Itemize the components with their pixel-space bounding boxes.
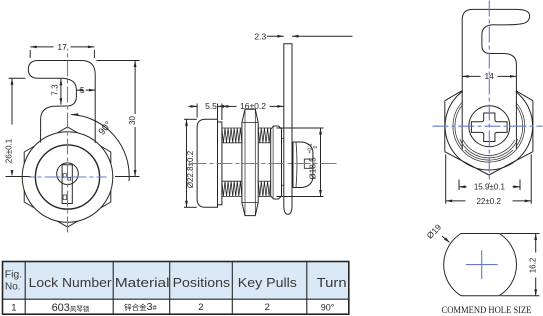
dim 5 text [80,85,85,95]
dim 2.3 line [267,35,353,38]
dim 30 extension lines [97,61,140,177]
table data Fig 1 [11,303,16,314]
table data turn 90 [321,303,335,313]
dim 5.5 text [205,101,217,111]
left view: keyway slot [62,165,72,204]
hole diagram caption [442,306,532,316]
svg-text:Positions: Positions [173,276,231,290]
side view horizontal centerline [191,163,338,165]
table data material [124,301,157,313]
dim 26 line [11,78,14,176]
side view: thread segment right [258,128,271,196]
dim 26 extension lines [6,78,31,176]
dim 5.5 line [189,105,226,108]
dim dia 19 leader [442,236,450,243]
dim 16 extension line [221,104,223,121]
svg-text:5: 5 [80,85,85,95]
angle 90 text [97,119,115,137]
dim 5.5 extension lines [197,104,217,121]
side view: thread segment left [222,128,242,196]
rear view horizontal centerline [433,125,543,127]
dim 30 text [128,116,137,125]
dim 2.3 text [254,31,266,41]
dim 5 line [76,89,95,92]
dim 22 text [476,197,501,206]
dim 16.2 extension lines [501,234,540,296]
side view: lock head dome [197,119,217,207]
dim 18.5 line [319,128,322,197]
left view horizontal centerline [29,176,107,178]
angle 90 arc [71,113,129,181]
left view: key plug circle [57,163,79,185]
svg-text:5.5: 5.5 [205,101,217,111]
svg-text:2.3: 2.3 [254,31,266,41]
dim 17 line [30,46,94,49]
svg-text:30: 30 [128,116,137,125]
dim 30 line [134,61,137,177]
dim 16 line [222,105,284,108]
svg-text:COMMEND HOLE SIZE: COMMEND HOLE SIZE [442,306,532,316]
svg-text:锌合金3#: 锌合金3# [124,301,157,313]
hole diagram: center cross [466,250,498,279]
dim 16 text [240,101,266,111]
hole diagram: double-D hole outline [444,234,517,296]
rear view: mask over circles top [463,79,516,151]
rear view: hook cam outline [462,9,529,98]
dim 22 extension lines [446,155,532,204]
left view: lock face circle [35,145,99,209]
svg-text:16±0.2: 16±0.2 [240,101,266,111]
dim 22 line [446,200,532,203]
svg-text:22±0.2: 22±0.2 [476,197,501,206]
rear view: screw head circle [469,106,510,147]
rear view: phillips cross recess [471,113,507,142]
dim 17 text [57,42,67,52]
rear view: hex nut upper chamfer edges [445,91,533,101]
side view: screw slot [304,159,312,168]
dim 15.9 extension lines [459,180,520,191]
svg-text:Ø18.5: Ø18.5 [309,157,318,180]
svg-text:0: 0 [313,145,319,148]
dim 7.3 text [50,84,59,96]
table header Positions [173,276,231,290]
svg-text:16.2: 16.2 [529,257,538,273]
dim 16.2 line [534,234,537,296]
left view: hex nut outline [24,127,111,227]
dim 18.5 extension lines [277,128,324,197]
table header Turn [317,276,347,290]
left view: face flange circle [22,132,113,223]
dim 26 text [5,138,14,163]
rear view: flange circle [445,82,533,170]
dim 15.9 line [459,185,520,188]
table data key pulls 2 [265,302,270,313]
dim 7.3 line [60,79,63,105]
svg-text:2: 2 [198,302,203,313]
dim 22.8 extension lines [184,119,197,207]
dim 22.8 text [186,150,195,188]
dim 17 extension lines [30,50,94,58]
svg-text:90°: 90° [321,303,335,313]
table header Material [115,276,170,290]
rear view: thread OD circles [453,90,525,162]
rear view: cam plate edges [462,99,516,150]
rear view vertical centerline [488,1,490,185]
rear view: thread root arcs [460,139,518,158]
dim 15.9 text [474,183,506,192]
table header Lock Number [29,276,112,290]
table grid [3,262,349,315]
table header Key Pulls [238,276,297,290]
dim 14 line [462,75,516,78]
svg-text:7.3: 7.3 [50,84,59,96]
dim 14 text [484,71,494,81]
left view: hook cam outline [28,61,95,144]
side view: retaining screw head [293,142,313,188]
svg-text:90°: 90° [97,119,115,137]
left view vertical centerline [67,49,69,235]
rear view: hex nut lower edges [445,152,533,175]
side view: cam plate edge-on [284,44,292,215]
side view: lock washer [271,126,282,199]
dim 18.5 text [308,143,320,179]
svg-text:1: 1 [11,303,16,314]
svg-text:17: 17 [57,42,67,52]
rear view: hex nut flats [445,101,533,152]
svg-text:2: 2 [265,302,270,313]
svg-text:Key Pulls: Key Pulls [238,276,297,290]
svg-text:Material: Material [115,276,170,290]
svg-text:No.: No. [5,281,21,293]
svg-text:603风琴锁: 603风琴锁 [52,302,90,314]
table header Fig. No. [5,269,23,293]
table data positions 2 [198,302,203,313]
dim dia 19 text [425,222,444,241]
svg-text:Ø22.8±0.2: Ø22.8±0.2 [186,150,195,188]
svg-text:Ø19: Ø19 [425,222,444,241]
side view: boss between washer and cam [282,139,284,186]
svg-text:Lock Number: Lock Number [29,276,112,290]
side view: hex mounting nut [242,109,258,215]
dim 16.2 text [529,257,538,273]
table data lock number 603 [52,302,90,314]
svg-text:Turn: Turn [317,276,347,290]
dim 22.8 line [185,119,188,207]
svg-text:26±0.1: 26±0.1 [5,138,14,163]
side view: head flange [218,122,222,205]
svg-text:Fig.: Fig. [5,269,23,281]
